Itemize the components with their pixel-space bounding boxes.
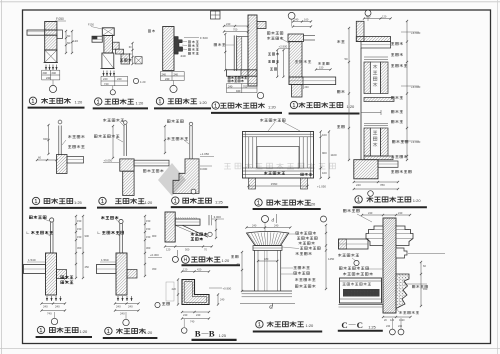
- section B-B axis bubble: [183, 319, 185, 327]
- detail 6 upper band: [361, 42, 391, 48]
- detail 14 base lines: [242, 290, 292, 292]
- detail 8 texts left: [94, 135, 119, 138]
- section B-B caption underline: [192, 339, 237, 341]
- detail 4 top dims: [224, 25, 248, 27]
- detail 9 texts top left: [167, 120, 183, 123]
- detail 7 left dims: [48, 125, 50, 154]
- section C-C box inner text: [343, 283, 371, 286]
- detail 6 niche 1 center: [370, 62, 380, 94]
- detail 7 railing post: [58, 120, 62, 124]
- detail 4 AC unit hatched strip: [237, 37, 242, 70]
- detail 13 outer frame: [243, 132, 314, 179]
- detail 11 bold leader text top: [101, 216, 118, 219]
- section C-C axis bubbles bottom: [391, 318, 393, 329]
- section C-C caption underline: [338, 330, 383, 332]
- section B-B L-wall outer: [182, 280, 209, 305]
- detail 12 title double circles: [172, 256, 178, 262]
- section B-B left faint box: [166, 282, 174, 301]
- section C-C right gutter profile stippled: [396, 274, 409, 309]
- detail 2 wall column: [104, 36, 113, 54]
- section C-C right horizontal line: [408, 253, 445, 255]
- detail 8 left dim: [112, 126, 114, 158]
- detail 3 wall section: [163, 27, 174, 71]
- detail 14 title: [256, 321, 263, 328]
- detail 2 wall corner section - slab: [92, 36, 102, 42]
- detail 3 leader text F600: [184, 37, 199, 39]
- detail 6 right dim line: [406, 21, 408, 160]
- detail 11 title: [105, 327, 112, 334]
- detail 4 AC niche: [237, 37, 248, 70]
- detail 10 dim boxes below: [42, 303, 66, 305]
- detail 1 leader arrows below column: [45, 65, 47, 71]
- detail 6 niche 2 center: [370, 128, 380, 156]
- detail 4 top slab stub: [257, 22, 266, 29]
- detail 7 title: [32, 197, 39, 204]
- detail 1 title: [29, 97, 36, 104]
- section C-C left layered box: [340, 278, 382, 303]
- detail 1 column bottom slash box: [45, 50, 57, 63]
- detail 13 railing elevation - leader texts top: [260, 119, 285, 122]
- detail 5 wall column: [289, 42, 302, 77]
- detail 8 wall column: [123, 171, 134, 195]
- detail 14 aux circle right: [321, 216, 327, 222]
- detail 2 stepped moulding: [113, 42, 120, 49]
- detail 13 bottom dim: [249, 185, 308, 187]
- detail 5 right small dims: [316, 69, 331, 71]
- detail 10 post: [50, 222, 52, 253]
- detail 1 right dim grid: [65, 31, 67, 53]
- detail 1 slab hatched over column: [45, 30, 57, 35]
- watermark diamond logo: [158, 163, 186, 196]
- section B-B inner line: [184, 282, 207, 303]
- section C-C bottom dims: [383, 316, 411, 318]
- detail 14 inner dim: [258, 260, 277, 262]
- detail 3 small leader texts: [188, 41, 198, 44]
- detail 12 black annotation block: [191, 233, 208, 236]
- detail 5 left text boxes: [268, 53, 279, 56]
- detail 9 hatched block with steps: [173, 159, 199, 194]
- section B-B bottom dims: [182, 311, 209, 313]
- detail 7 leader texts: [68, 135, 85, 138]
- detail 14 column shaft: [254, 250, 256, 291]
- marker circle A with label: [155, 302, 160, 307]
- detail 6 niche 2 top lines: [364, 123, 388, 125]
- detail 10 right dim column: [75, 216, 77, 278]
- detail 6 niche 1 right jamb: [381, 62, 389, 94]
- detail 2 column bottom line: [100, 68, 114, 70]
- detail 3 dark stepped moulding: [174, 37, 183, 55]
- detail 5 axis bubble: [288, 12, 295, 19]
- detail 11 post circle top: [119, 219, 123, 223]
- detail 1 wall corner section - slab: [27, 30, 45, 35]
- detail 3 title: [156, 98, 163, 105]
- detail 1 wall column lower: [45, 35, 57, 50]
- section C-C left marker circle: [354, 260, 359, 265]
- detail 1 node leader circle: [52, 80, 54, 85]
- detail 8 leader text top: [103, 119, 124, 122]
- detail 12 canopy wall hatched: [165, 212, 175, 242]
- detail 11 right level mark: [148, 257, 162, 259]
- section C-C right cornice moulding: [396, 226, 413, 246]
- detail 1 column bottom line: [44, 62, 59, 64]
- detail 11 leader circle: [125, 312, 127, 319]
- detail 11 slab: [97, 265, 117, 274]
- detail 14 base slab: [240, 303, 295, 305]
- section C-C leader text top left: [343, 209, 359, 212]
- detail 13 text in bottom rail: [264, 172, 285, 175]
- detail 3 leader circle: [170, 85, 177, 92]
- detail 8 text below slab: [143, 169, 163, 172]
- detail 9 title: [172, 197, 179, 204]
- detail 6 axis bubble bottom: [368, 191, 374, 197]
- detail 13 bottom rail lines: [243, 167, 314, 169]
- detail 5 top dim: [293, 21, 311, 23]
- detail 2 dark annotation right: [120, 59, 132, 62]
- detail 6 niche 2 left jamb: [364, 128, 370, 156]
- detail 4 bottom slab: [227, 70, 258, 76]
- section B-B right dim: [217, 295, 219, 305]
- detail 8 slab right: [134, 160, 169, 166]
- detail 14 right dim: [325, 225, 327, 289]
- detail 4 axis marker: [211, 11, 221, 19]
- detail 8 title: [99, 197, 106, 204]
- section C-C insulation dark band: [343, 289, 380, 297]
- detail 10 drip annotation: [61, 276, 74, 279]
- detail 14 top dim: [247, 227, 291, 229]
- detail 8 railing post: [124, 121, 128, 125]
- detail 1 right step: [57, 30, 63, 39]
- detail 12 bottom dim: [165, 246, 212, 248]
- detail 6 shelf line: [361, 112, 381, 114]
- detail 13 left stiles: [245, 132, 247, 179]
- watermark text: [224, 163, 335, 169]
- detail 6 niche 2 right jamb: [381, 128, 389, 156]
- section B-B left dims: [177, 280, 179, 305]
- detail 6 left dims: [348, 28, 350, 160]
- detail 10 post circle top: [50, 218, 54, 222]
- detail 14 abacus band: [253, 246, 282, 251]
- detail 14 axis bubble: [262, 216, 269, 223]
- detail 12 right vertical element: [208, 215, 210, 225]
- detail 4 left vertical dim: [224, 34, 226, 70]
- detail 6 axis bubble: [365, 10, 371, 16]
- detail 12 slab top hatch ticks: [176, 217, 197, 219]
- detail 6 bottom dims: [354, 181, 398, 183]
- detail 14 right leader texts: [296, 232, 316, 235]
- detail 9 left dim: [164, 126, 166, 153]
- detail 13 inner panel: [257, 147, 299, 169]
- detail 7 slab right: [67, 157, 84, 164]
- section C-C top dim: [362, 214, 410, 216]
- detail 2 title: [95, 98, 102, 105]
- detail 6 middle slab band: [364, 98, 394, 102]
- section C-C right leader: [404, 283, 427, 285]
- detail 3 left tiny text: [148, 30, 155, 33]
- detail 3 bottom dim grid: [160, 71, 184, 73]
- detail 4 marker circle: [257, 92, 263, 98]
- detail 13 right stiles: [310, 132, 312, 179]
- detail 5 top slab hatched: [288, 34, 304, 42]
- detail 2 column lower slash box: [102, 53, 114, 69]
- detail 5 wall below slab: [292, 85, 302, 97]
- detail 6 base slab right: [378, 161, 398, 167]
- detail 9 leader circle: [191, 189, 196, 194]
- detail 11 dim boxes below: [115, 303, 139, 305]
- detail 12 small circle marker: [208, 232, 212, 236]
- detail 5 annotation texts left: [267, 32, 283, 35]
- detail 1 dim grid below: [42, 69, 60, 71]
- detail 14 capital fan: [247, 231, 289, 245]
- detail 4 left annotation: [214, 43, 225, 46]
- detail 10 leader circle: [54, 312, 56, 318]
- section C-C bottom leader texts: [399, 311, 419, 314]
- detail 13 right dims: [320, 132, 322, 179]
- detail 6 niche 1 left jamb: [364, 62, 370, 94]
- detail 14 left dim: [241, 252, 243, 291]
- detail 11 leader arrows below: [117, 296, 119, 301]
- detail 4 bottom dim grid: [227, 83, 258, 85]
- detail 5 title: [290, 101, 297, 108]
- page edge grey lines: [1, 0, 3, 354]
- detail 2 leader circle: [112, 86, 114, 90]
- detail 9 railing post: [189, 122, 193, 126]
- detail 6 top hatched band: [356, 37, 390, 42]
- section C-C right step piece: [396, 248, 407, 258]
- section C-C right dim: [420, 262, 422, 306]
- detail 6 lower slab band: [364, 156, 393, 160]
- detail 12 canopy slab: [175, 219, 200, 225]
- detail 5 bottom slab: [289, 77, 336, 85]
- detail 8 curb: [120, 159, 134, 171]
- section C-C left slab band: [339, 239, 369, 249]
- detail 6 base: [354, 160, 378, 179]
- detail 9 dims right: [200, 156, 214, 158]
- detail 11 step right: [127, 270, 137, 279]
- detail 6 left boundary line: [360, 48, 362, 160]
- detail 2 dim grid below: [101, 75, 128, 77]
- detail 13 posts below: [249, 178, 256, 189]
- detail 2 small dims right: [132, 43, 134, 64]
- detail 10 drip step: [57, 270, 67, 279]
- detail 5 left dims: [276, 50, 278, 77]
- detail 12 diagonal support: [182, 225, 208, 237]
- detail 6 top dim: [364, 18, 391, 20]
- detail 10 leader arrows below: [46, 296, 48, 301]
- detail 2 X-box element: [135, 57, 142, 64]
- detail 6 top hatched block: [356, 21, 364, 41]
- detail 2 wall column cap: [102, 28, 114, 36]
- detail 5 niche text: [295, 60, 311, 63]
- detail 4 dark annotation below slab: [228, 77, 247, 79]
- detail 11 post: [119, 224, 121, 253]
- detail 1 wall column upper: [45, 22, 57, 31]
- detail 4 niche left wall: [233, 35, 235, 71]
- detail 4 title: [212, 102, 219, 109]
- detail 6 title: [355, 196, 362, 203]
- detail 6 right annotations: [391, 42, 403, 45]
- detail 13 title: [255, 199, 262, 206]
- detail 10 wall column: [46, 253, 57, 295]
- detail 13 text in bottom rail right: [301, 173, 312, 176]
- section B-B top dims: [182, 271, 209, 273]
- section B-B right leader: [209, 287, 222, 289]
- detail 11 wall column: [116, 253, 127, 295]
- detail 2 slab left dark end: [92, 36, 97, 39]
- detail 10 title: [37, 326, 44, 333]
- section C-C left leader texts: [339, 267, 368, 270]
- detail 2 marker circle A: [133, 78, 138, 83]
- detail 4 right wall column: [248, 15, 257, 86]
- section C-C central hatched column: [383, 218, 396, 313]
- detail 6 niche 1 top lines: [364, 56, 388, 58]
- detail 10 bold leader text top: [29, 216, 46, 219]
- detail 11 right dim column: [144, 216, 146, 276]
- detail 7 curb block: [57, 155, 68, 174]
- detail 10 slab: [24, 265, 46, 274]
- detail 9 texts left: [167, 137, 188, 140]
- detail 2 leader arrows below: [103, 71, 105, 77]
- detail 13 top rail lines: [243, 133, 314, 135]
- section C-C box lower lines: [340, 298, 382, 300]
- section C-C left cornice moulding: [366, 226, 383, 246]
